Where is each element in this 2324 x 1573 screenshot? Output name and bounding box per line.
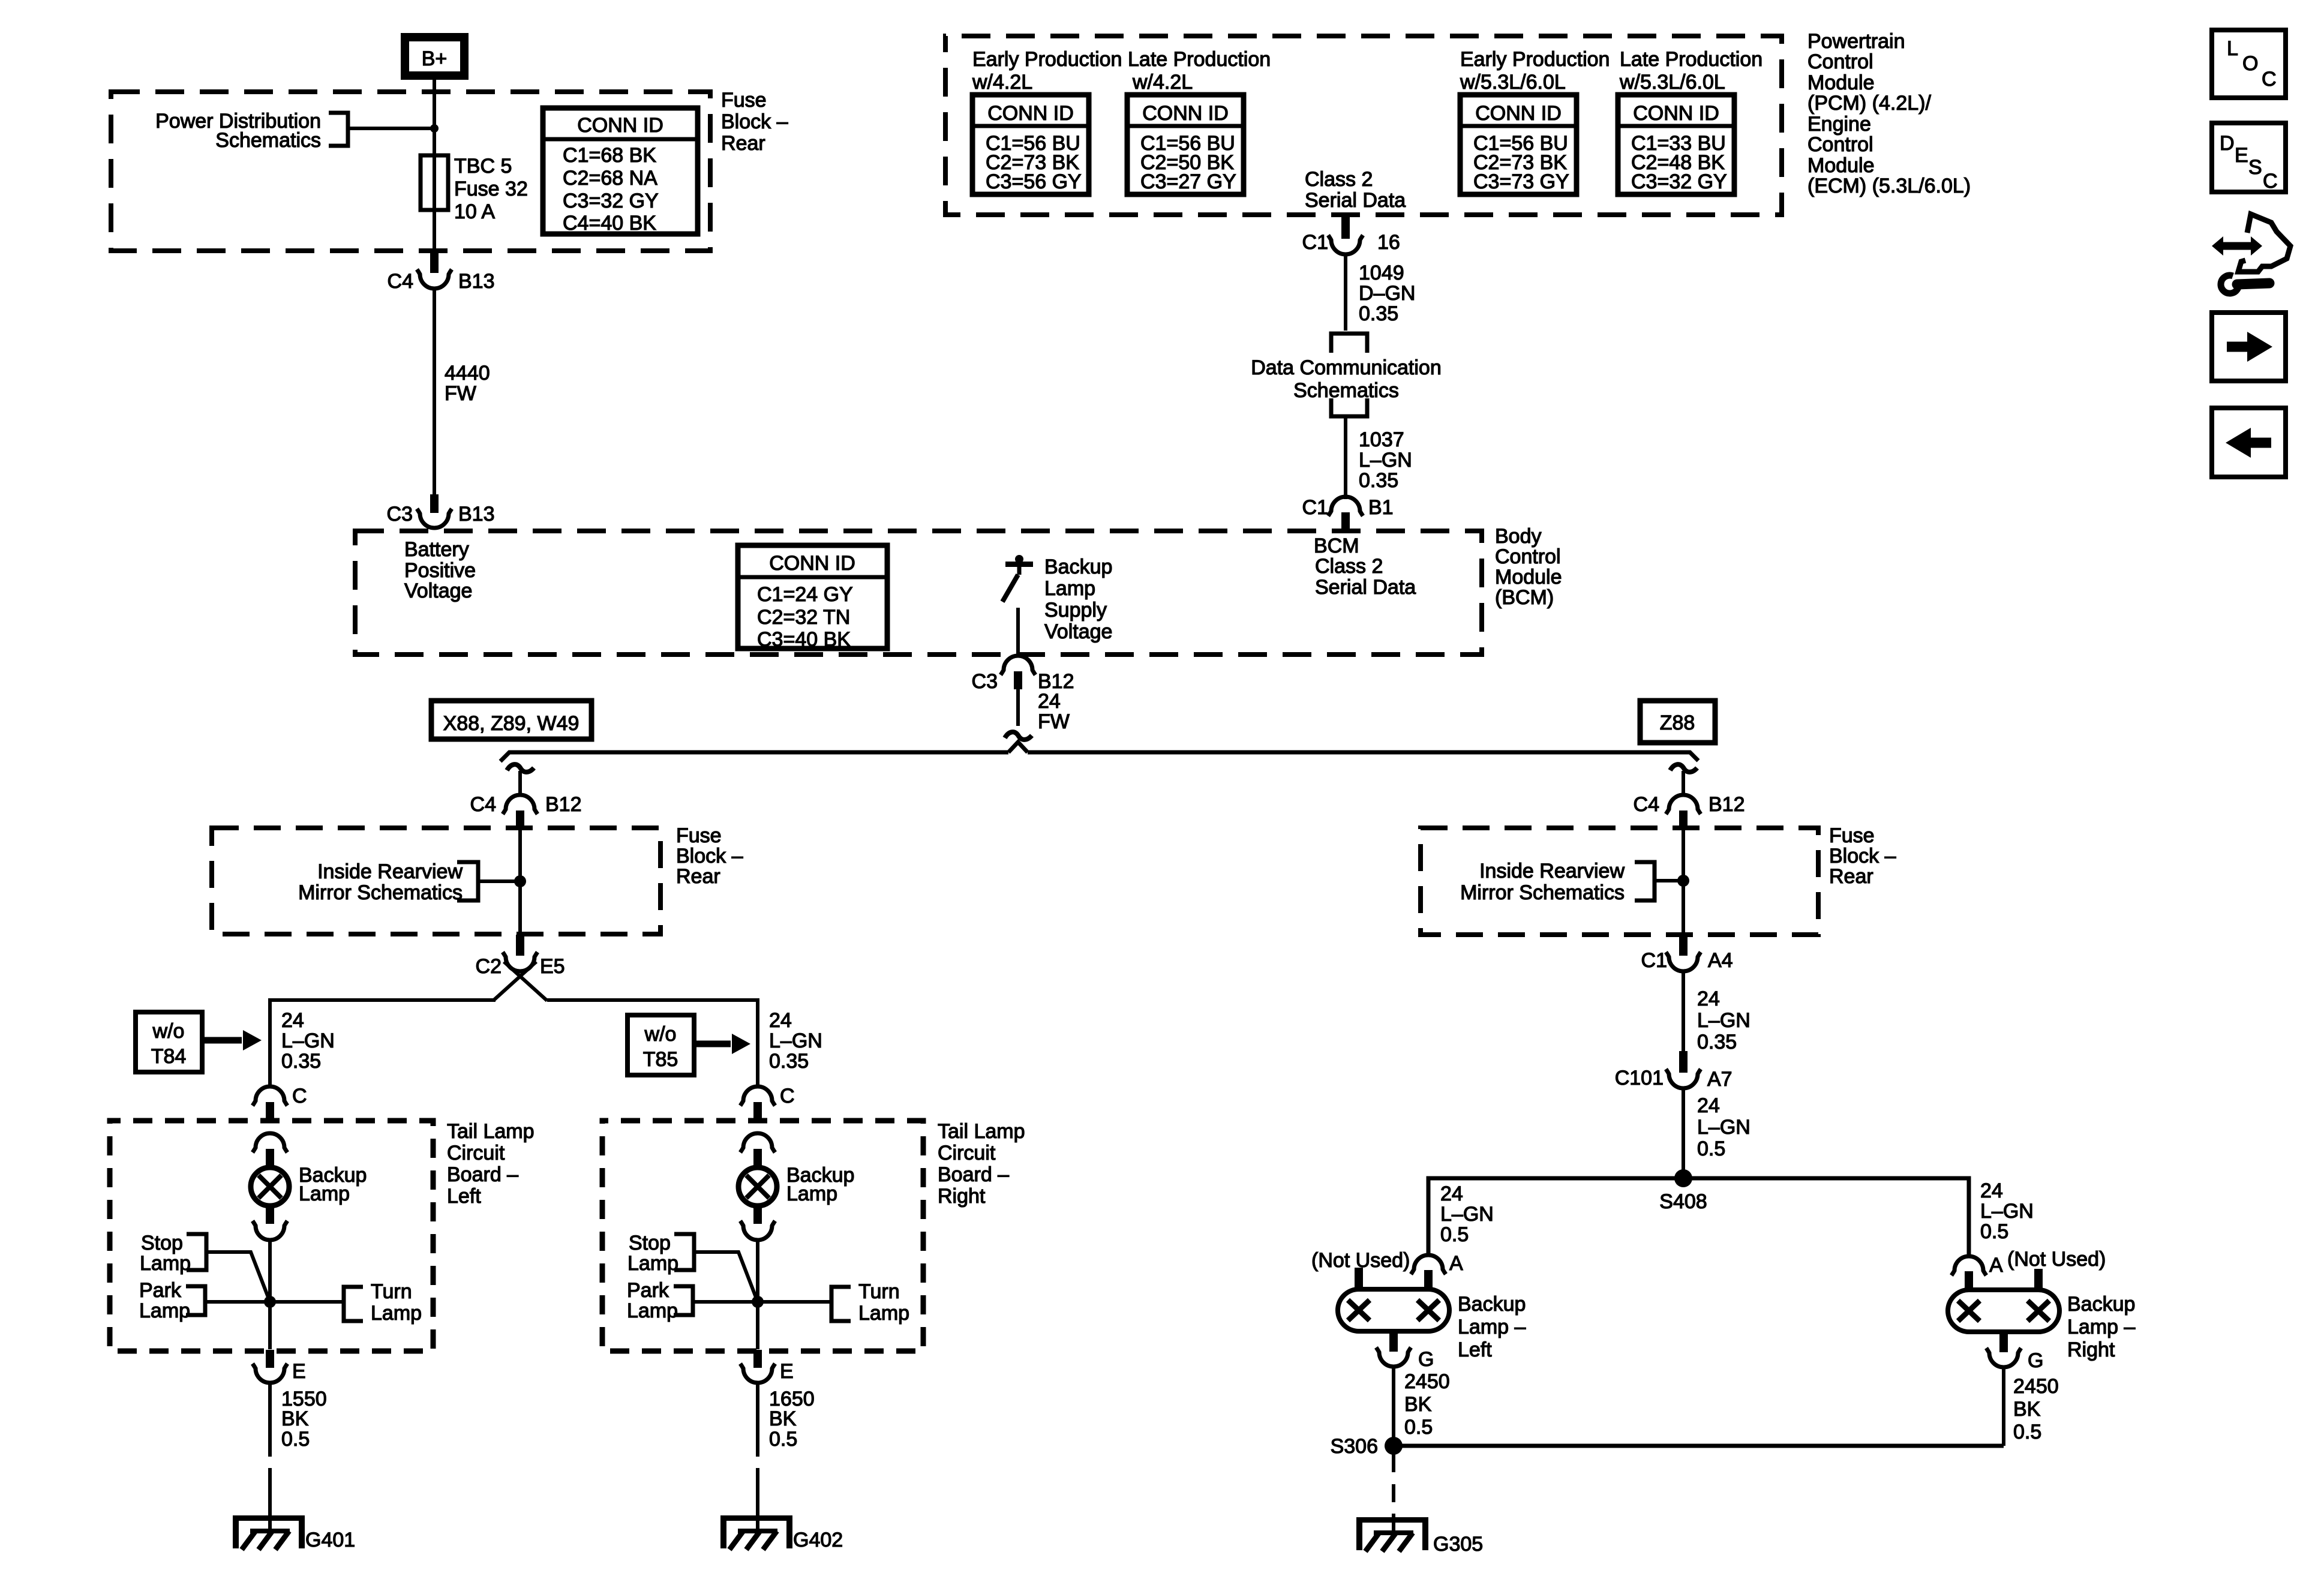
svg-text:(Not Used): (Not Used)	[2007, 1248, 2106, 1271]
node junction (right fuse block)	[1677, 875, 1689, 887]
svg-text:C1: C1	[1641, 949, 1667, 972]
connector C3 B12 (BCM output)	[972, 656, 1074, 693]
svg-text:0.5: 0.5	[1404, 1416, 1433, 1439]
wire 24 L-GN 0.5 (to S408)	[1682, 1088, 1685, 1178]
svg-text:Mirror Schematics: Mirror Schematics	[298, 881, 463, 904]
svg-text:0.35: 0.35	[1359, 302, 1398, 325]
svg-text:BK: BK	[2013, 1398, 2041, 1421]
svg-text:A: A	[1989, 1254, 2003, 1277]
svg-text:C: C	[2263, 170, 2278, 193]
svg-text:0.5: 0.5	[1980, 1220, 2008, 1243]
svg-text:S306: S306	[1331, 1435, 1378, 1458]
svg-text:Schematics: Schematics	[1293, 379, 1399, 402]
svg-text:Left: Left	[1458, 1338, 1492, 1361]
net tag X88, Z89, W49	[431, 701, 591, 739]
svg-text:0.5: 0.5	[281, 1428, 310, 1451]
backup lamp bulb (left)	[251, 1167, 289, 1206]
svg-text:BK: BK	[281, 1407, 309, 1430]
svg-text:Backup: Backup	[1044, 556, 1112, 578]
svg-text:Module: Module	[1807, 154, 1875, 177]
svg-text:D: D	[2220, 132, 2235, 155]
svg-text:Block –: Block –	[1829, 845, 1896, 867]
wire S408 bus	[1428, 1178, 1969, 1257]
icon next arrow	[2212, 313, 2286, 381]
svg-text:L: L	[2227, 37, 2238, 60]
svg-text:Fuse: Fuse	[1829, 824, 1875, 847]
svg-text:Tail Lamp: Tail Lamp	[938, 1120, 1025, 1143]
svg-text:Backup: Backup	[1458, 1293, 1526, 1316]
connector C4 B13	[388, 253, 495, 293]
svg-text:Lamp: Lamp	[627, 1252, 678, 1275]
connector C3 B13	[387, 494, 495, 528]
svg-text:C: C	[780, 1085, 795, 1107]
svg-text:BK: BK	[769, 1407, 797, 1430]
connector A (backup lamp left)	[1411, 1252, 1463, 1290]
svg-text:C: C	[2262, 68, 2277, 91]
svg-text:24: 24	[1440, 1182, 1463, 1205]
svg-text:Lamp: Lamp	[139, 1299, 190, 1322]
svg-text:Right: Right	[2067, 1338, 2115, 1361]
wire ground bus S306	[1394, 1444, 2004, 1448]
bulb lower pin (left)	[266, 1205, 274, 1224]
wire bracket to feed (left)	[478, 879, 520, 883]
label Tail Lamp Circuit Board - Left	[447, 1120, 535, 1208]
svg-text:0.35: 0.35	[281, 1050, 321, 1073]
svg-text:BCM: BCM	[1314, 535, 1359, 557]
label Fuse Block - Rear (left lower)	[676, 824, 743, 888]
svg-text:24: 24	[281, 1009, 304, 1032]
fuse TBC 5 Fuse 32 10 A	[421, 155, 528, 223]
connector below bulb (left)	[253, 1221, 287, 1240]
svg-text:B12: B12	[545, 793, 582, 816]
svg-text:Control: Control	[1495, 545, 1561, 568]
label Fuse Block - Rear (right lower)	[1829, 824, 1896, 888]
wire junction to board edge (left)	[268, 1302, 272, 1349]
wire turn lamp (right)	[758, 1300, 831, 1304]
svg-text:Module: Module	[1495, 566, 1562, 589]
svg-text:C1: C1	[1302, 231, 1328, 254]
label Inside Rearview Mirror Schematics (right)	[1460, 860, 1625, 904]
bulb lower pin (right)	[753, 1205, 762, 1224]
svg-text:S: S	[2248, 156, 2262, 179]
connector C1 B1	[1302, 496, 1394, 532]
connector below bulb (right)	[740, 1221, 775, 1240]
label Turn Lamp (left)	[371, 1280, 422, 1325]
svg-text:B+: B+	[422, 47, 448, 70]
svg-text:Fuse 32: Fuse 32	[454, 178, 528, 200]
ground G401	[233, 1515, 305, 1550]
svg-text:Turn: Turn	[858, 1280, 900, 1303]
wire 2450 BK 0.5 (left)	[1392, 1367, 1395, 1446]
svg-text:Late Production: Late Production	[1620, 48, 1762, 71]
svg-text:w/4.2L: w/4.2L	[1132, 71, 1193, 94]
node junction (right board)	[752, 1296, 764, 1308]
wire through left fuse block	[518, 830, 522, 934]
icon DESC	[2212, 123, 2286, 193]
ground G305	[1356, 1517, 1428, 1551]
svg-text:L–GN: L–GN	[769, 1029, 822, 1052]
label Body Control Module (BCM)	[1495, 525, 1562, 609]
CONN ID table PCM 4	[1618, 95, 1734, 194]
svg-text:0.35: 0.35	[1697, 1031, 1737, 1053]
wire label 24 L-GN 0.5 (lamp right feed)	[1980, 1179, 2034, 1243]
caption Early Production w/4.2L	[972, 48, 1122, 94]
option tag w/o T85	[627, 1015, 694, 1075]
wire split X below E5	[493, 962, 547, 1001]
caption Early Production w/5.3L/6.0L	[1460, 48, 1610, 94]
svg-text:FW: FW	[1038, 710, 1070, 733]
wire bracket to feed (right)	[1655, 879, 1683, 882]
tail lamp circuit board right dashed box	[602, 1121, 923, 1351]
svg-text:A7: A7	[1707, 1068, 1733, 1091]
svg-text:E: E	[292, 1360, 306, 1383]
pin stub not used (left lamp)	[1355, 1268, 1363, 1290]
svg-text:Voltage: Voltage	[404, 580, 472, 602]
svg-text:Lamp: Lamp	[786, 1182, 837, 1205]
connector inside board (right)	[740, 1133, 775, 1167]
connector G (right lamp)	[1986, 1348, 2043, 1372]
bracket Inside Rearview (right)	[1635, 862, 1655, 900]
svg-text:C1=68 BK: C1=68 BK	[563, 144, 656, 167]
wire stop lamp diagonal (right)	[694, 1252, 758, 1302]
connector C101 A7	[1615, 1051, 1733, 1091]
svg-text:Lamp: Lamp	[858, 1302, 909, 1325]
svg-text:Backup: Backup	[2067, 1293, 2135, 1316]
svg-text:24: 24	[1697, 987, 1720, 1010]
svg-text:Circuit: Circuit	[938, 1142, 996, 1164]
wire into ground (right)	[756, 1487, 759, 1532]
svg-text:Late Production: Late Production	[1128, 48, 1271, 71]
label Stop Lamp (left)	[140, 1232, 191, 1275]
svg-text:C1=24 GY: C1=24 GY	[757, 583, 853, 606]
switch Backup Lamp Supply Voltage	[1002, 555, 1033, 655]
connector inside board (left)	[253, 1133, 287, 1167]
svg-text:L–GN: L–GN	[1697, 1009, 1750, 1032]
svg-text:24: 24	[1038, 690, 1061, 713]
svg-text:Inside Rearview: Inside Rearview	[1479, 860, 1625, 882]
svg-text:Supply: Supply	[1044, 599, 1107, 622]
backup lamp bulb (right)	[738, 1167, 777, 1206]
wire stop lamp diagonal (left)	[206, 1252, 270, 1302]
CONN ID table (fuse block rear)	[543, 108, 698, 235]
svg-text:0.5: 0.5	[2013, 1421, 2041, 1443]
svg-text:Lamp –: Lamp –	[1458, 1316, 1526, 1338]
svg-text:Left: Left	[447, 1185, 481, 1208]
bracket for Power Distribution	[329, 113, 348, 146]
svg-text:A: A	[1449, 1252, 1463, 1275]
svg-text:Rear: Rear	[721, 132, 765, 155]
svg-text:Lamp: Lamp	[371, 1302, 422, 1325]
wire bulb to junction (right)	[756, 1239, 759, 1302]
svg-text:O: O	[2242, 52, 2258, 75]
svg-text:FW: FW	[445, 382, 476, 405]
svg-text:C4=40 BK: C4=40 BK	[563, 212, 656, 235]
svg-text:CONN ID: CONN ID	[769, 552, 855, 575]
svg-text:Circuit: Circuit	[447, 1142, 505, 1164]
CONN ID table PCM 1	[972, 95, 1089, 194]
wire park lamp (left)	[205, 1300, 270, 1304]
connector C2 E5	[476, 935, 565, 978]
svg-text:2450: 2450	[1404, 1370, 1450, 1393]
wire fuse to box edge	[433, 210, 436, 251]
svg-text:Turn: Turn	[371, 1280, 412, 1303]
connector C1 A4	[1641, 935, 1733, 972]
svg-text:16: 16	[1377, 231, 1400, 254]
node junction (left fuse block)	[514, 875, 526, 887]
label Fuse Block - Rear (top)	[721, 89, 788, 155]
wire 1049 D-GN 0.35	[1344, 254, 1347, 331]
svg-text:C101: C101	[1615, 1067, 1664, 1089]
off-page bracket top (Data Communication)	[1331, 334, 1367, 353]
icon back arrow	[2212, 408, 2286, 477]
svg-text:w/5.3L/6.0L: w/5.3L/6.0L	[1460, 71, 1566, 94]
option tag w/o T84	[136, 1012, 202, 1072]
svg-text:Data Communication: Data Communication	[1251, 356, 1441, 379]
svg-text:Z88: Z88	[1660, 712, 1695, 734]
svg-text:Rear: Rear	[1829, 865, 1873, 888]
backup lamp - right	[1948, 1290, 2059, 1332]
svg-text:Board –: Board –	[447, 1163, 518, 1186]
wire B+ to fuse	[433, 80, 436, 157]
svg-text:CONN ID: CONN ID	[1142, 102, 1229, 125]
svg-text:TBC 5: TBC 5	[454, 155, 512, 178]
svg-text:T84: T84	[151, 1045, 187, 1068]
svg-text:Stop: Stop	[141, 1232, 183, 1254]
connector E (left)	[253, 1350, 306, 1383]
svg-text:Lamp: Lamp	[140, 1252, 191, 1275]
svg-text:Tail Lamp: Tail Lamp	[447, 1120, 535, 1143]
svg-text:0.35: 0.35	[769, 1050, 809, 1073]
label Data Communication Schematics	[1251, 356, 1441, 402]
label Park Lamp (left)	[139, 1279, 190, 1322]
svg-text:B13: B13	[458, 503, 495, 526]
svg-text:w/4.2L: w/4.2L	[972, 71, 1032, 94]
wire label 24 L-GN 0.35 (left)	[281, 1009, 335, 1073]
connector C (left)	[253, 1085, 307, 1121]
svg-text:C4: C4	[1634, 793, 1659, 816]
icon vehicle with wrench	[2212, 214, 2290, 293]
svg-text:24: 24	[769, 1009, 792, 1032]
pigtail curl below C3 B12	[1005, 732, 1032, 740]
svg-text:C3: C3	[972, 670, 998, 693]
svg-text:Body: Body	[1495, 525, 1542, 548]
svg-text:S408: S408	[1659, 1190, 1707, 1213]
svg-text:C4: C4	[388, 270, 413, 293]
wire bulb to junction (left)	[268, 1239, 272, 1302]
svg-text:C3=27 GY: C3=27 GY	[1140, 170, 1236, 193]
svg-text:B1: B1	[1368, 496, 1394, 519]
svg-text:Board –: Board –	[938, 1163, 1009, 1186]
wire horizontal bus X88-Z88	[500, 752, 1008, 761]
svg-text:Early Production: Early Production	[972, 48, 1122, 71]
svg-text:E: E	[2235, 144, 2248, 167]
wire 1037 L-GN 0.35	[1344, 416, 1347, 499]
svg-text:Powertrain: Powertrain	[1807, 30, 1905, 53]
svg-text:Lamp: Lamp	[1044, 577, 1095, 600]
svg-text:C3=32 GY: C3=32 GY	[563, 190, 659, 212]
wire to left tail lamp	[270, 1000, 496, 1087]
wire through right fuse block	[1682, 830, 1685, 935]
svg-text:24: 24	[1980, 1179, 2003, 1202]
bracket Park Lamp (left)	[186, 1286, 205, 1315]
svg-text:Lamp: Lamp	[627, 1299, 678, 1322]
node Battery Positive Voltage	[404, 538, 476, 602]
fuse block rear dashed box (left lower)	[212, 828, 660, 934]
caption Late Production w/4.2L	[1128, 48, 1271, 94]
svg-text:24: 24	[1697, 1094, 1720, 1117]
svg-text:4440: 4440	[445, 362, 490, 385]
svg-text:Class 2: Class 2	[1315, 555, 1383, 578]
wire down to C4 B12 (right)	[1682, 771, 1685, 795]
svg-text:C4: C4	[470, 793, 496, 816]
label Inside Rearview Mirror Schematics (left)	[298, 860, 463, 904]
svg-text:10 A: 10 A	[454, 200, 495, 223]
svg-text:C3=73 GY: C3=73 GY	[1473, 170, 1569, 193]
connector G (left lamp)	[1376, 1347, 1434, 1371]
svg-text:Control: Control	[1807, 50, 1873, 73]
pigtail curl right branch	[1670, 764, 1697, 772]
caption Late Production w/5.3L/6.0L	[1619, 48, 1762, 94]
icon LOC	[2212, 30, 2286, 98]
wire 4440 FW	[433, 289, 436, 496]
svg-text:C1: C1	[1302, 496, 1328, 519]
svg-text:Fuse: Fuse	[676, 824, 722, 847]
svg-text:A4: A4	[1708, 949, 1733, 972]
svg-text:(ECM) (5.3L/6.0L): (ECM) (5.3L/6.0L)	[1807, 175, 1971, 197]
svg-text:Lamp –: Lamp –	[2067, 1316, 2135, 1338]
ground G402	[720, 1515, 792, 1550]
svg-text:T85: T85	[643, 1048, 678, 1071]
svg-text:Positive: Positive	[404, 559, 476, 582]
svg-text:0.5: 0.5	[1440, 1223, 1469, 1246]
svg-text:C3=56 GY: C3=56 GY	[986, 170, 1082, 193]
CONN ID table PCM 2	[1127, 95, 1244, 194]
svg-text:Fuse: Fuse	[721, 89, 767, 112]
splice S306	[1385, 1437, 1403, 1455]
svg-text:C3: C3	[387, 503, 413, 526]
wire down to C4 B12	[518, 771, 522, 795]
lamp bottom pin (left)	[1389, 1329, 1398, 1352]
power symbol B+	[405, 37, 464, 76]
BCM dashed box	[355, 531, 1482, 655]
svg-text:E: E	[780, 1360, 794, 1383]
net tag Z88	[1640, 701, 1715, 743]
svg-text:E5: E5	[540, 955, 565, 978]
svg-text:CONN ID: CONN ID	[1475, 102, 1562, 125]
svg-text:0.35: 0.35	[1359, 469, 1398, 492]
svg-text:C3=40 BK: C3=40 BK	[757, 628, 851, 651]
label Stop Lamp (right)	[627, 1232, 678, 1275]
svg-text:L–GN: L–GN	[1359, 449, 1412, 472]
svg-text:C2: C2	[476, 955, 502, 978]
bracket Stop Lamp (right)	[674, 1234, 694, 1270]
svg-text:CONN ID: CONN ID	[577, 114, 663, 137]
connector C1 16	[1302, 216, 1400, 254]
node junction at B+ feed	[430, 124, 439, 133]
connector E (right)	[740, 1350, 794, 1383]
svg-text:C2=32 TN: C2=32 TN	[757, 606, 850, 629]
svg-text:w/o: w/o	[152, 1020, 185, 1043]
svg-text:CONN ID: CONN ID	[1633, 102, 1719, 125]
svg-text:Inside Rearview: Inside Rearview	[317, 860, 463, 883]
fuse block rear dashed box (right lower)	[1421, 828, 1818, 935]
pin stub not used (right lamp)	[2034, 1269, 2043, 1292]
wire label 24 L-GN 0.35 (right)	[769, 1009, 822, 1073]
label Power Distribution Schematics	[155, 110, 321, 152]
label Powertrain Control Module	[1807, 30, 1971, 197]
svg-text:1049: 1049	[1359, 262, 1404, 284]
wire to right tail lamp	[547, 1000, 758, 1087]
wire 1550 BK 0.5	[268, 1383, 272, 1435]
svg-text:L–GN: L–GN	[281, 1029, 335, 1052]
svg-text:G402: G402	[793, 1529, 843, 1551]
wire 24 FW	[1016, 689, 1020, 726]
wire park lamp (right)	[693, 1300, 758, 1304]
svg-text:Schematics: Schematics	[215, 129, 321, 152]
lamp bottom pin (right)	[1999, 1329, 2008, 1352]
connector C4 B12 (left)	[470, 793, 582, 830]
svg-text:B12: B12	[1709, 793, 1745, 816]
wire 24 L-GN 0.35 (serial feed)	[1682, 971, 1685, 1051]
wire dashed to G305	[1392, 1454, 1395, 1514]
arrow T84	[205, 1030, 262, 1050]
wire 2450 BK 0.5 (right)	[2002, 1367, 2005, 1446]
wire turn lamp (left)	[270, 1300, 344, 1304]
label Park Lamp (right)	[627, 1279, 678, 1322]
svg-text:X88, Z89, W49: X88, Z89, W49	[443, 712, 580, 735]
bracket Park Lamp (right)	[674, 1286, 693, 1315]
svg-text:C: C	[292, 1085, 307, 1107]
svg-text:Battery: Battery	[404, 538, 469, 561]
svg-text:Rear: Rear	[676, 865, 720, 888]
node Class 2 Serial Data	[1305, 168, 1406, 212]
svg-text:0.5: 0.5	[769, 1428, 797, 1451]
svg-text:CONN ID: CONN ID	[987, 102, 1074, 125]
PCM dashed box	[945, 36, 1782, 215]
splice S408	[1674, 1169, 1692, 1187]
svg-text:Block –: Block –	[676, 845, 743, 867]
svg-text:w/o: w/o	[644, 1023, 677, 1046]
svg-text:w/5.3L/6.0L: w/5.3L/6.0L	[1619, 71, 1725, 94]
svg-text:Stop: Stop	[629, 1232, 671, 1254]
svg-text:Control: Control	[1807, 133, 1873, 156]
svg-text:B13: B13	[458, 270, 495, 293]
svg-text:BK: BK	[1404, 1393, 1432, 1416]
wire junction to board edge (right)	[756, 1302, 759, 1349]
svg-text:G: G	[1418, 1348, 1434, 1371]
wire into ground (left)	[268, 1487, 272, 1532]
connector C (right)	[740, 1085, 795, 1121]
wire bracket to B+ feed	[348, 127, 434, 130]
CONN ID table PCM 3	[1460, 95, 1577, 194]
backup lamp - left	[1338, 1289, 1449, 1331]
svg-text:L–GN: L–GN	[1440, 1203, 1494, 1226]
bracket Inside Rearview (left)	[457, 862, 478, 900]
arrow T85	[696, 1034, 750, 1054]
connector C4 B12 (right)	[1634, 793, 1745, 830]
svg-text:Serial Data: Serial Data	[1315, 576, 1416, 599]
svg-text:Mirror Schematics: Mirror Schematics	[1460, 881, 1625, 904]
svg-text:G: G	[2028, 1349, 2043, 1372]
svg-text:C3=32 GY: C3=32 GY	[1631, 170, 1727, 193]
splice caret into bus	[1008, 742, 1028, 752]
svg-text:L–GN: L–GN	[1980, 1200, 2034, 1223]
label Turn Lamp (right)	[858, 1280, 909, 1325]
node BCM Class 2 Serial Data	[1314, 535, 1416, 599]
svg-text:Park: Park	[627, 1279, 669, 1302]
svg-text:(PCM) (4.2L)/: (PCM) (4.2L)/	[1807, 92, 1931, 115]
bracket Turn Lamp (right)	[831, 1287, 851, 1321]
